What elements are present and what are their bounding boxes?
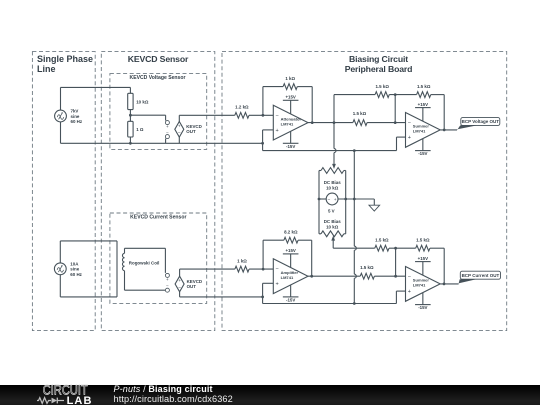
svg-text:Peripheral Board: Peripheral Board — [345, 64, 413, 74]
svg-text:+: + — [166, 124, 169, 129]
svg-text:10 kΩ: 10 kΩ — [136, 99, 149, 104]
svg-text:-15V: -15V — [418, 305, 427, 310]
svg-text:1.2 kΩ: 1.2 kΩ — [235, 105, 249, 110]
svg-text:+15V: +15V — [418, 256, 428, 261]
svg-text:LM741: LM741 — [281, 275, 294, 280]
svg-text:−: − — [166, 284, 169, 289]
svg-text:+15V: +15V — [418, 102, 428, 107]
svg-text:−: − — [408, 274, 411, 280]
svg-text:1.5 kΩ: 1.5 kΩ — [416, 238, 430, 243]
svg-text:DC Bias: DC Bias — [324, 219, 342, 224]
svg-text:−: − — [408, 120, 411, 126]
svg-text:+: + — [276, 282, 279, 288]
svg-text:Line: Line — [37, 64, 56, 74]
svg-text:+: + — [408, 135, 411, 141]
svg-text:-15V: -15V — [418, 151, 427, 156]
svg-text:LM741: LM741 — [413, 283, 426, 288]
svg-text:1.5 kΩ: 1.5 kΩ — [360, 265, 374, 270]
svg-text:+15V: +15V — [285, 95, 295, 100]
svg-text:−: − — [327, 198, 330, 203]
svg-text:KEVCD Voltage Sensor: KEVCD Voltage Sensor — [130, 75, 186, 81]
svg-text:−: − — [178, 131, 181, 136]
svg-text:1.5 kΩ: 1.5 kΩ — [353, 111, 367, 116]
svg-text:Rogowski Coil: Rogowski Coil — [129, 261, 160, 266]
svg-text:+: + — [178, 124, 181, 129]
svg-text:KEVCD Current Sensor: KEVCD Current Sensor — [130, 214, 186, 220]
svg-text:10 kΩ: 10 kΩ — [326, 225, 339, 230]
svg-text:OUT: OUT — [187, 284, 197, 289]
svg-text:−: − — [276, 113, 279, 119]
svg-text:1.5 kΩ: 1.5 kΩ — [417, 84, 431, 89]
svg-text:60 Hz: 60 Hz — [71, 119, 83, 124]
svg-text:-15V: -15V — [286, 144, 295, 149]
svg-text:BCP Voltage OUT: BCP Voltage OUT — [462, 119, 500, 124]
svg-text:+: + — [178, 279, 181, 284]
svg-text:KEVCD Sensor: KEVCD Sensor — [128, 54, 189, 64]
svg-text:DC Bias: DC Bias — [324, 180, 342, 185]
svg-text:10 kΩ: 10 kΩ — [326, 185, 339, 190]
svg-text:1 kΩ: 1 kΩ — [285, 76, 295, 81]
svg-text:LM741: LM741 — [413, 129, 426, 134]
svg-text:1.5 kΩ: 1.5 kΩ — [375, 238, 389, 243]
svg-text:60 Hz: 60 Hz — [70, 272, 82, 277]
svg-text:+: + — [408, 289, 411, 295]
svg-text:+: + — [276, 128, 279, 134]
svg-text:+15V: +15V — [285, 248, 295, 253]
svg-text:OUT: OUT — [186, 129, 196, 134]
svg-text:1 Ω: 1 Ω — [136, 127, 144, 132]
svg-text:5 V: 5 V — [328, 209, 335, 214]
svg-text:Biasing Circuit: Biasing Circuit — [349, 54, 408, 64]
svg-text:BCP Current OUT: BCP Current OUT — [462, 273, 500, 278]
svg-text:−: − — [178, 286, 181, 291]
svg-text:−: − — [276, 267, 279, 273]
svg-text:-15V: -15V — [286, 298, 295, 303]
svg-text:1.5 kΩ: 1.5 kΩ — [375, 84, 389, 89]
svg-text:+: + — [166, 277, 169, 282]
svg-text:1 kΩ: 1 kΩ — [237, 258, 247, 263]
svg-text:8.2 kΩ: 8.2 kΩ — [284, 230, 298, 235]
svg-text:Single Phase: Single Phase — [37, 54, 93, 64]
svg-text:+: + — [334, 198, 337, 203]
svg-text:LM741: LM741 — [281, 121, 294, 126]
